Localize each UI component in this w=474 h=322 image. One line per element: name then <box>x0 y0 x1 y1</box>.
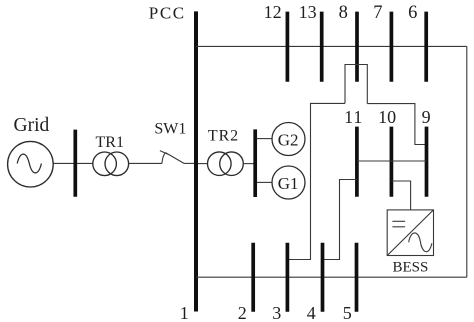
wire bus to G2 <box>257 138 272 140</box>
bus 7 bar <box>390 12 394 82</box>
wire TR1 to SW1 <box>129 162 162 164</box>
svg-text:1: 1 <box>180 303 189 322</box>
svg-text:10: 10 <box>378 107 396 127</box>
bus 2 bar <box>251 243 255 312</box>
bus 5 bar <box>355 243 359 312</box>
svg-text:6: 6 <box>408 3 417 23</box>
svg-text:BESS: BESS <box>393 259 429 275</box>
svg-text:G1: G1 <box>278 174 299 193</box>
wire PCC to TR2 <box>198 163 208 165</box>
wire bus 11 to bus 9 <box>357 160 427 162</box>
svg-text:8: 8 <box>339 3 348 23</box>
wire bus 11 down to bus 4 <box>323 180 357 260</box>
wire bus to G1 <box>257 181 272 183</box>
bus 3 bar <box>286 243 290 312</box>
bus 8 bar <box>355 12 359 82</box>
wire grid to TR1 <box>53 162 93 164</box>
svg-text:12: 12 <box>264 2 282 22</box>
generator G1 <box>272 166 305 199</box>
svg-text:Grid: Grid <box>14 115 50 136</box>
transformer TR2 <box>208 152 244 176</box>
svg-text:9: 9 <box>422 107 431 127</box>
bus 10 bar <box>390 127 394 197</box>
bus 6 bar <box>424 12 428 82</box>
wire tap-right to bus 9 <box>367 104 426 145</box>
wire bus 10 to BESS <box>391 181 410 210</box>
wire tap-left down to bus 3 <box>287 103 345 259</box>
bus 11 bar <box>355 127 359 197</box>
generator bus bar <box>253 129 257 197</box>
switch SW1 <box>160 151 184 164</box>
bottom feeder wire <box>196 276 467 278</box>
svg-text:3: 3 <box>272 303 281 322</box>
svg-text:G2: G2 <box>278 131 299 150</box>
bus 13 bar <box>320 12 324 82</box>
bus 9 bar <box>425 127 429 197</box>
transformer TR1 <box>93 152 129 176</box>
svg-text:TR1: TR1 <box>96 134 124 151</box>
bus 12 bar <box>286 12 290 82</box>
bus 8 tap staple wire <box>345 65 367 104</box>
top feeder wire <box>196 45 467 47</box>
svg-text:SW1: SW1 <box>154 120 186 137</box>
AC grid source <box>8 141 54 187</box>
svg-text:2: 2 <box>238 303 247 322</box>
svg-text:4: 4 <box>307 303 316 322</box>
grid-side bus bar <box>73 130 77 197</box>
wire TR2 to generator bus <box>243 163 255 165</box>
bus 4 bar <box>321 243 325 312</box>
svg-text:TR2: TR2 <box>208 128 239 145</box>
svg-text:7: 7 <box>373 3 382 23</box>
svg-text:PCC: PCC <box>149 3 186 22</box>
svg-text:11: 11 <box>344 107 363 127</box>
right feeder wire <box>466 46 468 277</box>
wire SW1 to PCC bus <box>184 162 196 164</box>
generator G2 <box>272 123 305 156</box>
BESS converter box <box>387 210 433 256</box>
PCC bus bar (bus 1) <box>194 11 198 311</box>
svg-text:5: 5 <box>343 303 352 322</box>
svg-text:13: 13 <box>299 2 317 22</box>
